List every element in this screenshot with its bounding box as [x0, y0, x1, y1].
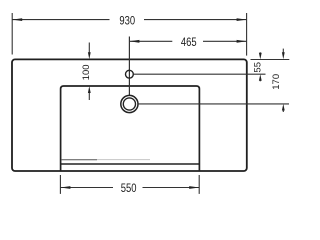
faucet hole circle: [125, 70, 133, 78]
svg-text:100: 100: [81, 64, 92, 80]
dim 930: arrows: [12, 18, 22, 21]
dim 465: arrows: [129, 40, 139, 43]
svg-text:550: 550: [121, 182, 137, 195]
svg-text:465: 465: [181, 36, 197, 49]
bowl front edge line: [61, 163, 200, 165]
svg-text:930: 930: [119, 15, 135, 28]
dim 170: lower stub with up arrow: [282, 110, 284, 112]
svg-text:55: 55: [253, 62, 264, 73]
faint bowl bottom line: [61, 159, 97, 161]
dim 170: upper stub with down arrow: [282, 49, 284, 53]
dim 55: upper stub with down arrow: [259, 52, 261, 55]
dim 55: lower stub with up arrow: [259, 79, 261, 82]
top edge extension line to the right: [251, 59, 290, 61]
dim 930: extension lines: [11, 13, 13, 55]
outer rect: washbasin countertop outline: [12, 59, 247, 171]
inner bowl outline: [61, 86, 200, 171]
centerline through holes: [128, 37, 130, 96]
dim 100: upper stub with down arrow: [88, 43, 90, 53]
dim 930: dimension line: [12, 19, 109, 21]
svg-text:170: 170: [271, 74, 282, 90]
dim 550: extension lines: [59, 175, 61, 194]
drain double circle: [121, 95, 138, 112]
faucet hole leader line to right: [133, 73, 265, 75]
drain leader line to right: [138, 103, 289, 105]
dim 550: dimension line: [60, 187, 113, 189]
dim 465: dimension line: [129, 40, 172, 42]
dim 100: lower stub with up arrow: [88, 93, 90, 100]
dim 550: arrows: [60, 186, 70, 189]
